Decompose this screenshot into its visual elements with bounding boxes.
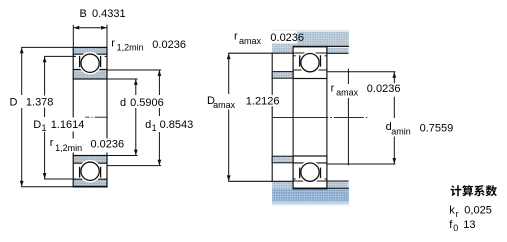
housing left shoulder block [272,46,293,53]
svg-text:0.0236: 0.0236 [367,83,401,95]
svg-text:B: B [80,8,87,20]
svg-text:r: r [234,31,238,43]
svg-text:amax: amax [213,100,236,110]
svg-text:0.8543: 0.8543 [160,119,194,131]
d_amin dimension line [393,72,395,84]
svg-text:d: d [145,119,151,131]
ball (lower section) [81,162,99,180]
D dimension line [21,47,23,95]
bearing inner ring band (lower section) [73,156,107,164]
svg-text:1,2min: 1,2min [117,42,144,52]
raceway white clearance (lower section) [79,160,102,183]
svg-text:1: 1 [152,123,157,133]
svg-text:D: D [10,96,18,108]
housing top band [272,32,349,46]
label r1,2min 0.0236 (bottom) [48,137,126,153]
svg-text:1.2126: 1.2126 [246,96,280,108]
housing bottom band [272,188,349,201]
D1 dimension extension lines [44,55,76,57]
centerline axis (right drawing) [272,116,369,118]
svg-text:0,025: 0,025 [464,205,492,217]
svg-text:0.4331: 0.4331 [92,8,126,20]
raceway shoulder lines (lower section) [79,167,81,178]
da extension lines [327,71,396,73]
d1 dimension extension lines [107,69,161,71]
shaft shoulder strip (upper) [272,72,293,79]
label D_amax 1.2126 [205,95,282,110]
B dimension extension lines [72,25,74,47]
d dimension line [135,79,137,95]
bore edge wires (right drawing) [292,79,294,157]
svg-text:0.0236: 0.0236 [152,39,186,51]
D_amax dimension line [228,53,230,94]
raceway shoulder lines (upper section) [79,56,81,67]
svg-text:0.7559: 0.7559 [420,122,454,134]
svg-text:D: D [33,119,41,131]
svg-text:1: 1 [42,123,47,133]
title 计算系数 [451,185,497,196]
housing left shoulder block (bottom) [272,182,293,189]
housing right shoulder strip [327,48,349,53]
label d_amin 0.7559 [384,119,453,137]
D1 dimension line [44,56,46,117]
svg-text:1,2min: 1,2min [55,143,82,153]
svg-text:1.378: 1.378 [26,97,54,109]
housing right shoulder strip (bottom) [327,181,349,187]
svg-text:0.0236: 0.0236 [91,139,125,151]
svg-text:13: 13 [463,219,475,231]
label d 0.5906 [118,95,165,109]
d1 dimension line [158,70,160,116]
svg-text:0.0236: 0.0236 [270,32,304,44]
bearing outline box (upper section) [73,47,107,79]
svg-text:amax: amax [239,36,262,46]
svg-text:r: r [456,209,459,219]
housing bore line over bearing and right [293,45,349,47]
svg-text:r: r [331,82,335,94]
label r_amax (second) [330,82,403,98]
bearing outline box (lower section) [73,156,107,187]
bearing (upper section, right drawing) [293,47,327,79]
svg-text:1.1614: 1.1614 [51,119,85,131]
label D1 1.1614 [31,118,88,134]
housing left face wire [271,53,273,182]
shaft shoulder strip (lower) [272,156,293,163]
bearing (lower section, right drawing) [293,156,327,188]
label d1 0.8543 [143,117,197,133]
B dimension line [73,27,107,29]
label 0.0236 (first, on band) [269,31,304,44]
svg-text:k: k [449,205,455,217]
centerline axis [85,116,110,118]
D dimension extension lines [21,46,73,48]
svg-text:r: r [50,137,54,149]
shaft end face wire [347,69,349,85]
D1 recess marks (upper section) [73,55,76,57]
bearing outer ring top band (upper section) [73,47,107,54]
svg-text:r: r [111,38,115,50]
bore edge left wire [72,79,74,156]
bearing outer ring band (lower section) [73,179,107,187]
svg-text:amin: amin [391,127,411,137]
raceway white clearance (upper section) [79,52,102,75]
bore edge right wire [106,79,108,156]
d dimension extension lines [107,78,138,80]
label D 1.378 [7,96,53,109]
svg-text:amax: amax [336,88,359,98]
svg-text:0: 0 [453,223,458,233]
bearing inner ring band (upper section) [73,69,107,79]
ball (upper section) [81,54,99,72]
svg-text:0.5906: 0.5906 [130,97,164,109]
D1 recess marks (lower section) [73,178,76,180]
svg-text:d: d [120,97,126,109]
